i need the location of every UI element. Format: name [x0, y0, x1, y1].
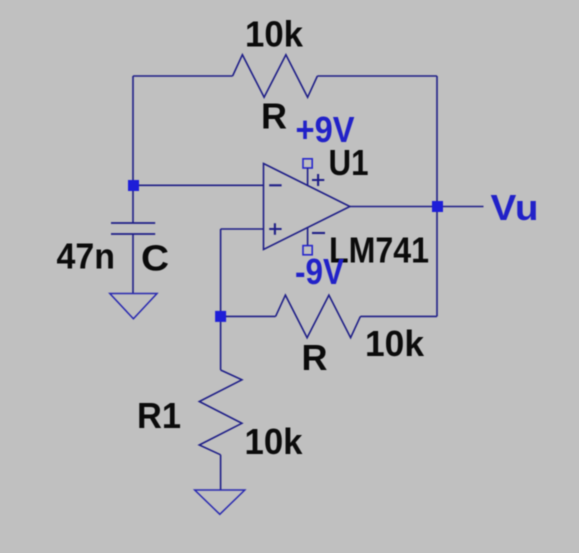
node A (inverting input junction) — [128, 180, 139, 191]
svg-text:C: C — [141, 238, 169, 279]
resistor R1 (vertical, 10k) — [199, 370, 242, 455]
node B (feedback junction) — [215, 311, 226, 322]
resistor R (bottom, 10k) — [276, 295, 361, 338]
op-amp V- pin square — [303, 246, 312, 255]
svg-text:-9V: -9V — [295, 251, 344, 292]
op-amp minus input symbol — [269, 184, 281, 186]
op-amp U1 triangle — [264, 164, 350, 250]
svg-text:R: R — [261, 96, 287, 137]
wire node B to resistor R bottom — [226, 315, 276, 317]
svg-text:47n: 47n — [57, 235, 116, 276]
wire node B down to R1 — [220, 322, 222, 370]
op-amp V- pin stub — [307, 228, 309, 245]
ground (under R1) — [195, 490, 245, 514]
wire node to capacitor — [132, 191, 134, 223]
svg-text:10k: 10k — [245, 14, 304, 55]
op-amp plus input symbol — [269, 223, 281, 234]
svg-text:R: R — [302, 337, 328, 378]
op-amp V+ pin square — [303, 159, 312, 168]
wire resistor to right rail — [360, 315, 437, 317]
wire noninverting input — [221, 228, 264, 230]
wire right rail vertical — [436, 76, 438, 316]
svg-text:R1: R1 — [137, 395, 181, 436]
wire inverting input — [133, 184, 264, 186]
wire top-left horizontal — [133, 75, 233, 77]
resistor R (top, 10k) — [233, 55, 318, 98]
op-amp V+ plus label — [312, 174, 324, 186]
ground (under C) — [110, 294, 157, 319]
svg-text:LM741: LM741 — [329, 230, 429, 271]
wire top-right horizontal — [317, 75, 437, 77]
svg-text:U1: U1 — [329, 142, 369, 183]
svg-text:10k: 10k — [245, 421, 304, 462]
wire noninverting down to junction — [220, 229, 222, 316]
wire R1 to ground — [220, 455, 222, 490]
wire capacitor to ground — [132, 234, 134, 294]
svg-text:10k: 10k — [365, 323, 425, 364]
node Vu (output junction) — [432, 201, 443, 212]
wire left rail vertical — [132, 76, 134, 185]
op-amp V- minus label — [312, 232, 325, 234]
op-amp V+ pin stub — [307, 168, 309, 186]
svg-text:Vu: Vu — [491, 187, 539, 228]
wire output — [350, 206, 484, 208]
capacitor C 47n plates — [111, 223, 155, 234]
